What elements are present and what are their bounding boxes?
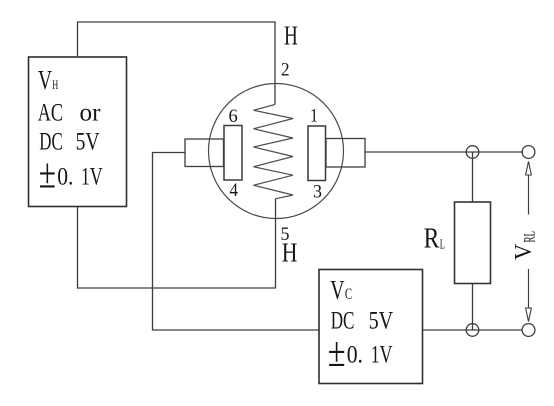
svg-text:V: V — [510, 244, 537, 260]
power supply box VH — [29, 57, 127, 207]
node: bottom junction — [466, 324, 479, 337]
svg-text:1V: 1V — [371, 339, 393, 368]
wire: right tab to top terminal — [365, 151, 522, 153]
svg-text:RL: RL — [522, 231, 539, 243]
label AC or — [38, 97, 101, 126]
svg-text:H: H — [284, 21, 298, 51]
svg-text:4: 4 — [230, 180, 239, 201]
label VC — [330, 275, 352, 305]
wire: RL bottom lead — [472, 284, 474, 331]
svg-text:1: 1 — [310, 106, 318, 127]
arrow down (VRL measure, bottom) — [526, 308, 532, 322]
svg-text:1V: 1V — [81, 161, 103, 190]
label DC 5V (VC) — [331, 306, 394, 335]
arrow up (VRL measure, top) — [526, 162, 532, 176]
label RL — [424, 223, 445, 255]
VRL measure line top segment — [528, 175, 530, 215]
svg-text:V: V — [330, 275, 345, 305]
load resistor RL — [455, 202, 491, 284]
svg-text:V: V — [38, 65, 52, 95]
terminal: bottom output — [522, 324, 535, 337]
svg-text:0.: 0. — [57, 161, 73, 190]
right tab — [326, 139, 365, 168]
label VRL (rotated) — [510, 231, 539, 260]
svg-text:AC: AC — [38, 97, 63, 126]
terminal: top output — [522, 146, 535, 159]
svg-text:R: R — [424, 223, 440, 255]
label VH — [38, 65, 58, 95]
wire: VH top to sensor pin 2 — [78, 22, 276, 105]
svg-text:C: C — [345, 286, 352, 303]
heater zigzag — [254, 105, 294, 199]
svg-text:or: or — [80, 97, 101, 126]
svg-text:±: ± — [39, 152, 56, 198]
sensor body circle — [209, 84, 344, 219]
svg-text:0.: 0. — [347, 339, 363, 368]
label ±0.1V — [39, 152, 103, 198]
wire: VC box to bottom terminal — [423, 329, 523, 331]
svg-text:L: L — [440, 236, 445, 251]
svg-text:5V: 5V — [76, 127, 100, 156]
svg-text:±: ± — [328, 330, 346, 376]
node: top junction — [466, 146, 479, 159]
left tab — [185, 139, 224, 167]
wire: RL top lead — [472, 152, 474, 202]
wire: left tab to VC box — [153, 153, 320, 331]
label DC 5V — [39, 127, 100, 156]
label ±0.1V (VC) — [328, 330, 393, 376]
svg-text:2: 2 — [281, 59, 290, 80]
power supply box VC — [319, 270, 423, 384]
svg-text:3: 3 — [313, 182, 322, 203]
svg-text:5V: 5V — [369, 306, 394, 335]
right electrode plate (pins 1/3) — [308, 126, 326, 181]
svg-text:6: 6 — [229, 106, 238, 127]
left electrode plate (pins 6/4) — [224, 126, 242, 181]
svg-text:H: H — [52, 78, 58, 92]
wire: VH bottom to sensor pin 5 — [78, 199, 276, 289]
VRL measure line bottom segment — [528, 269, 530, 308]
svg-text:5: 5 — [281, 224, 290, 245]
